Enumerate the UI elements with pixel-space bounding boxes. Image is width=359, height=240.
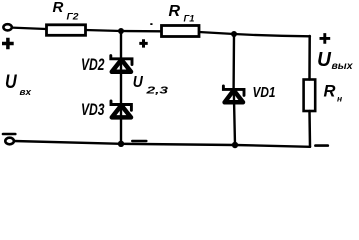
svg-text:2,3: 2,3 (145, 85, 169, 96)
zener diode VD1 cathode bar (223, 86, 244, 96)
label voltage U input (5, 71, 32, 98)
terminal input top-left (3, 24, 11, 30)
svg-text:VD1: VD1 (253, 85, 276, 101)
svg-text:VD2: VD2 (81, 56, 105, 74)
svg-text:R: R (53, 0, 64, 16)
svg-text:U: U (5, 71, 18, 93)
wire top rail mid2 (121, 30, 161, 33)
terminal input bottom-left (5, 138, 14, 145)
plus sign output (320, 33, 331, 44)
zener diode VD1 triangle (225, 90, 243, 102)
wire top rail mid3 (199, 32, 234, 34)
minus sign mid (132, 140, 146, 142)
wire below VD3 (120, 105, 122, 144)
svg-text:R: R (169, 3, 181, 20)
wire right vertical upper (308, 36, 311, 80)
zener diode VD2 cathode bar (111, 56, 132, 65)
node junction bottom D (232, 142, 238, 148)
svg-text:R: R (324, 83, 336, 101)
wire between VD2 VD3 (120, 59, 122, 104)
label resistor Rg1 (169, 3, 195, 23)
bottom rail wire (14, 141, 310, 147)
svg-text:Г1: Г1 (184, 13, 195, 23)
plus sign node U23 (139, 39, 147, 47)
plus sign input (2, 38, 14, 50)
wire top rail mid1 (86, 30, 122, 31)
zener diode VD3 triangle (112, 105, 131, 117)
node junction bottom C (118, 141, 124, 147)
minus sign input overbar (3, 133, 15, 136)
svg-text:вых: вых (332, 60, 354, 72)
label resistor Rg2 (53, 0, 79, 21)
node junction top B (231, 31, 237, 37)
label voltage U output (317, 48, 354, 71)
zener diode VD3 cathode bar (111, 101, 131, 110)
wire branch VD1 lower (234, 90, 235, 145)
wire branch VD1 upper (232, 34, 235, 89)
wire right vertical lower (308, 111, 311, 147)
label resistor Rn (324, 83, 343, 104)
resistor R_g1 (162, 26, 200, 37)
resistor R_n load (304, 80, 316, 112)
wire branch VD2 VD3 (120, 31, 122, 59)
node junction top A (118, 28, 124, 34)
ink speck (150, 23, 152, 25)
minus sign output (315, 144, 327, 147)
svg-text:н: н (337, 94, 342, 104)
label voltage U2,3 (133, 73, 169, 96)
wire top rail left (12, 28, 46, 29)
zener diode VD2 triangle (112, 60, 131, 72)
svg-text:вх: вх (20, 87, 32, 98)
svg-text:VD3: VD3 (81, 101, 105, 119)
svg-text:U: U (133, 73, 144, 91)
svg-text:Г2: Г2 (67, 11, 79, 21)
svg-text:U: U (317, 48, 331, 71)
resistor R_g2 (47, 25, 86, 36)
wire top rail right (234, 34, 310, 36)
